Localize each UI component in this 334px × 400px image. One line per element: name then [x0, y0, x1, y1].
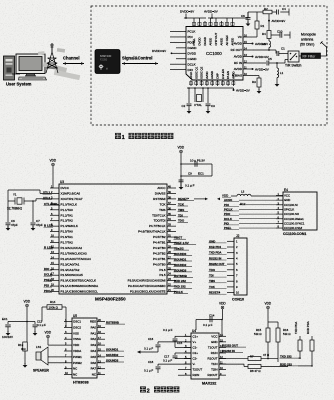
- resistor R8 47ohm: [219, 363, 244, 365]
- svg-text:AVDD=3V: AVDD=3V: [255, 42, 268, 46]
- U3 pin 33 P4.7/TBCLK: [167, 225, 176, 227]
- svg-text:AVDD=3V: AVDD=3V: [204, 10, 219, 14]
- svg-text:AVDD: AVDD: [234, 42, 243, 46]
- U5 pin 13 PA6: [97, 362, 105, 364]
- CC1000 top pin AVDD: [221, 21, 223, 27]
- svg-text:TXD PDA: TXD PDA: [209, 251, 221, 255]
- svg-text:P4.2/TB2: P4.2/TB2: [153, 251, 166, 255]
- caption figure 2: 图2 控制电路: [140, 386, 146, 392]
- svg-text:L1: L1: [280, 71, 284, 75]
- svg-text:PA1: PA1: [91, 331, 97, 335]
- svg-text:VDD: VDD: [178, 146, 185, 150]
- E4 pin 4 SPICLK: [276, 208, 283, 210]
- svg-text:CC1100.SO: CC1100.SO: [284, 212, 300, 216]
- svg-text:2: 2: [147, 389, 150, 395]
- svg-text:PA4: PA4: [91, 349, 97, 353]
- capacitor C10: [271, 34, 280, 36]
- wire reset with arrow: [194, 198, 206, 200]
- svg-text:P1.0/TACLK: P1.0/TACLK: [61, 202, 77, 206]
- antenna tower lattice: [46, 52, 58, 73]
- ground under L1: [275, 84, 280, 87]
- svg-text:LNA EN: LNA EN: [221, 69, 225, 79]
- svg-text:EC1: EC1: [2, 317, 8, 321]
- capacitor C8 0.1uF: [179, 179, 184, 181]
- E4 pin 2 GND: [276, 199, 283, 201]
- svg-text:TDO/TDI: TDO/TDI: [154, 219, 166, 223]
- caption figure 1: 图1 系统工作示意图: [115, 133, 121, 139]
- svg-text:RF OUT: RF OUT: [231, 48, 242, 52]
- svg-text:J2: J2: [236, 234, 240, 238]
- U3 pin 35 TDI/TCLK: [167, 214, 176, 216]
- svg-text:P1.2/TA1: P1.2/TA1: [61, 213, 74, 217]
- CC1000 right pin R BIAS: [243, 75, 252, 77]
- U3 pin 10 P1.6/TA1: [50, 236, 59, 238]
- monopole antenna symbol: [321, 42, 327, 47]
- svg-text:P1.4/SMCLK: P1.4/SMCLK: [61, 224, 78, 228]
- svg-text:DGND: DGND: [203, 37, 207, 45]
- svg-text:F2350: F2350: [100, 58, 108, 62]
- svg-text:antenna: antenna: [301, 38, 313, 42]
- resistor R2 horizontal top: [263, 10, 272, 14]
- crystal X2: [194, 88, 196, 102]
- U3 pin 34 TDO/TDI: [167, 220, 176, 222]
- resistor R16 51k: [277, 322, 279, 328]
- U3 pin 29 P4.3/TB0: [167, 247, 176, 249]
- E4 pin 8 CC1100.CS1#: [276, 227, 283, 229]
- svg-text:PA7: PA7: [91, 367, 97, 371]
- U3 pin 31 P4.5/TB2: [167, 236, 176, 238]
- CC1000 left pin DCLK: [176, 63, 186, 65]
- svg-text:U3: U3: [60, 180, 64, 184]
- U3 pin 37 TCK: [167, 203, 176, 205]
- svg-text:R1OUT: R1OUT: [208, 357, 218, 361]
- svg-text:T1OUT: T1OUT: [208, 345, 218, 349]
- monitor stand: [26, 74, 36, 77]
- svg-text:47pF: 47pF: [36, 223, 43, 227]
- svg-text:DCLK: DCLK: [188, 62, 196, 66]
- svg-text:PWM2: PWM2: [73, 361, 82, 365]
- MCU U3 MSP430F2350 body: [59, 184, 167, 294]
- U4 pin 4 C2+: [184, 352, 191, 354]
- E4 pin 3 CC1100.SI: [276, 204, 283, 206]
- svg-text:MSP430F2350: MSP430F2350: [95, 297, 126, 302]
- CC1000 bottom pin LNA EN: [222, 80, 224, 86]
- svg-text:P4.5/TB2: P4.5/TB2: [153, 235, 166, 239]
- U5 pin 17 PA2: [97, 338, 105, 340]
- svg-text:DGND: DGND: [188, 46, 198, 50]
- svg-text:0 Ω: 0 Ω: [21, 347, 26, 351]
- svg-text:X1N/P2.6/CA6: X1N/P2.6/CA6: [61, 191, 81, 195]
- U5 pin 12 PA7: [97, 368, 105, 370]
- wire R15 bottom junction: [267, 342, 269, 359]
- svg-text:VCC: VCC: [284, 194, 290, 198]
- svg-text:GND: GND: [284, 198, 290, 202]
- svg-text:0.1 µ F: 0.1 µ F: [203, 323, 213, 327]
- svg-text:R7: R7: [250, 354, 254, 358]
- svg-text:PA0: PA0: [91, 325, 97, 329]
- svg-text:C4: C4: [282, 7, 286, 11]
- U5 pin 4 VSSA: [64, 338, 72, 340]
- svg-text:R4: R4: [262, 32, 266, 36]
- svg-text:TCK: TCK: [160, 202, 166, 206]
- svg-text:C2: C2: [182, 104, 186, 108]
- svg-text:CC1100.CON1: CC1100.CON1: [283, 232, 306, 236]
- computer tower: [4, 56, 15, 80]
- svg-text:C1: C1: [281, 47, 285, 51]
- J2 pin 5 RS232 OUT: [227, 263, 234, 265]
- wire XTL1 net: [8, 189, 40, 191]
- capacitor C5 series RF IN: [252, 62, 266, 64]
- svg-text:P1.5/TA0: P1.5/TA0: [61, 230, 74, 234]
- svg-text:C9: C9: [188, 172, 192, 176]
- svg-text:Y1: Y1: [13, 193, 17, 197]
- svg-text:CC1000: CC1000: [206, 51, 222, 56]
- svg-text:C2+: C2+: [193, 351, 199, 355]
- capacitor C2 left of crystal: [188, 88, 190, 103]
- svg-text:Monopole: Monopole: [301, 33, 316, 37]
- E4 pin 7 CC1100.SYNC1: [276, 222, 283, 224]
- svg-text:PWM1: PWM1: [73, 355, 82, 359]
- resistor R4 vertical: [267, 31, 271, 39]
- svg-text:TXD PDA: TXD PDA: [294, 322, 298, 334]
- wire filter to antenna: [321, 55, 327, 57]
- RF filter black box: [301, 53, 321, 59]
- svg-text:C6: C6: [241, 14, 245, 18]
- svg-text:AVDD: AVDD: [234, 67, 243, 71]
- U4 pin 10 T2IN: [219, 369, 226, 371]
- svg-text:32.768kHz: 32.768kHz: [7, 207, 22, 211]
- CC1000 top pin AVDD: [210, 21, 212, 27]
- U3 pin 21 P3.3/UCB0CLK/UCA0STE: [167, 291, 176, 293]
- wire R2IN stub: [178, 374, 184, 376]
- capacitor C4 top right: [272, 11, 276, 13]
- svg-text:C2-: C2-: [193, 357, 198, 361]
- U5 pin 10 NC: [64, 374, 72, 376]
- svg-text:P1.7/TA2: P1.7/TA2: [61, 241, 74, 245]
- svg-text:V-: V-: [193, 362, 196, 366]
- wire top bus to right network: [240, 17, 248, 19]
- svg-text:X'TAL: X'TAL: [194, 103, 202, 107]
- svg-text:SPEAKER: SPEAKER: [33, 369, 50, 373]
- J2 pin 9 TCK: [227, 286, 234, 288]
- svg-text:AVDD=3V: AVDD=3V: [236, 89, 251, 93]
- svg-text:XOUT/P2.7/CA7: XOUT/P2.7/CA7: [61, 197, 83, 201]
- CC1000 bottom pin PA EN: [227, 80, 229, 86]
- svg-text:T2OUT: T2OUT: [193, 368, 203, 372]
- ground under R3: [257, 91, 262, 94]
- svg-text:SPICLK: SPICLK: [284, 207, 294, 211]
- bottom bus wire: [187, 87, 234, 89]
- svg-text:PCLK: PCLK: [188, 30, 196, 34]
- svg-text:U4: U4: [192, 329, 196, 333]
- svg-text:RF Filter: RF Filter: [303, 54, 317, 58]
- svg-text:PSEL: PSEL: [192, 38, 196, 46]
- svg-text:E4: E4: [284, 188, 288, 192]
- svg-text:VDD: VDD: [219, 302, 226, 306]
- ground below C2: [187, 111, 192, 114]
- resistor R13 0ohm: [26, 322, 28, 343]
- svg-text:DVDD: DVDD: [198, 37, 202, 45]
- svg-text:0.1 µ F: 0.1 µ F: [144, 369, 153, 373]
- U3 pin 32 P4.6/TB0UTH/ACLK: [167, 231, 176, 233]
- svg-text:VDD: VDD: [45, 331, 52, 335]
- U4 pin 15 GND: [219, 341, 226, 343]
- CC1000 right pin RF OUT: [243, 49, 252, 51]
- svg-text:0.1 µ F: 0.1 µ F: [144, 347, 153, 351]
- svg-text:0.1 µ F: 0.1 µ F: [185, 184, 195, 188]
- wire VSS to ground: [60, 332, 64, 334]
- U4 pin 7 T2OUT: [184, 369, 191, 371]
- svg-text:R LED: R LED: [44, 245, 53, 249]
- J2 pin 8 TMS: [227, 280, 234, 282]
- svg-text:P3.2/UCB0SOMI/UCB0SCL: P3.2/UCB0SOMI/UCB0SCL: [61, 290, 99, 294]
- inductor L2 vertical: [268, 39, 270, 42]
- U3 pin 27 P4.1/TB1: [167, 258, 176, 260]
- svg-text:User System: User System: [6, 82, 32, 87]
- svg-text:GND: GND: [211, 340, 218, 344]
- svg-text:DVDD=3V: DVDD=3V: [152, 49, 167, 53]
- wire R16 bottom junction: [277, 342, 279, 362]
- svg-text:47pF: 47pF: [11, 223, 18, 227]
- antenna tower mast: [51, 43, 53, 52]
- wire XTL2 net: [33, 200, 36, 202]
- svg-text:DIO: DIO: [188, 68, 194, 72]
- svg-text:DVCC: DVCC: [61, 186, 70, 190]
- CC1000 bottom pin AGND: [211, 80, 213, 86]
- CC1000 right pin RF IN: [243, 62, 252, 64]
- ground below C7: [31, 228, 36, 231]
- J2 pin 1 GND: [227, 240, 234, 242]
- U3 pin 18 P3.0/UCB0STE/UCA0CLK: [50, 280, 59, 282]
- connector E4 CC1100.CON1 body: [283, 192, 317, 230]
- svg-text:TDI/TCLK: TDI/TCLK: [152, 213, 165, 217]
- U3 pin 28 P4.2/TB2: [167, 252, 176, 254]
- CC1000 bottom pin AVDD: [232, 80, 234, 86]
- svg-text:1: 1: [122, 135, 125, 141]
- svg-text:PA5: PA5: [91, 355, 97, 359]
- capacitor C6 to ground: [247, 12, 249, 18]
- svg-text:R8 47 Ω: R8 47 Ω: [250, 369, 261, 373]
- svg-text:VDDA: VDDA: [73, 349, 81, 353]
- svg-text:LS1: LS1: [36, 345, 42, 349]
- ground below C11: [33, 333, 38, 336]
- node AVDD=3V right 1: [268, 14, 270, 31]
- U3 pin 38 RST/NMI: [167, 198, 176, 200]
- wire computer to tower: [12, 73, 20, 75]
- svg-text:R12: R12: [240, 202, 246, 206]
- radio wave ribbon 1: [43, 62, 67, 73]
- transceiver module chip: [95, 50, 120, 74]
- CC1000 left pin DIO: [176, 69, 186, 71]
- svg-text:PA EN: PA EN: [226, 71, 230, 79]
- U4 pin 3 C1-: [184, 346, 191, 348]
- U3 pin 8 P1.4/SMCLK: [50, 225, 59, 227]
- U3 pin 24 P3.5: [167, 274, 176, 276]
- svg-text:CHP OUT: CHP OUT: [214, 32, 218, 45]
- U5 pin 11 NC: [97, 374, 105, 376]
- U4 pin 1 C1+: [184, 335, 191, 337]
- U5 pin 1 OSC1: [64, 321, 72, 323]
- capacitor EC1 electrolytic loop: [181, 163, 212, 165]
- CC1000 top pin PSEL: [193, 21, 195, 27]
- svg-text:P2.3/CA0/TA1: P2.3/CA0/TA1: [61, 262, 80, 266]
- top supply bus AVDD: [208, 17, 240, 19]
- driver U4 MAX232 body: [191, 333, 219, 379]
- svg-text:VSS: VSS: [73, 331, 79, 335]
- wire TXD232 to PDA: [298, 357, 300, 359]
- svg-text:R2OUT: R2OUT: [208, 373, 218, 377]
- wire T2OUT stub: [178, 369, 184, 371]
- U4 pin 16 VCC: [219, 335, 226, 337]
- CC1000 bottom pin XOSC Q2: [201, 80, 203, 86]
- svg-text:P4.6/TB0UTH/ACLK: P4.6/TB0UTH/ACLK: [138, 230, 165, 234]
- svg-text:C16: C16: [148, 337, 154, 341]
- U3 pin 2 X1N/P2.6/CA6: [50, 192, 59, 194]
- svg-text:AVDD=3V: AVDD=3V: [272, 19, 287, 23]
- svg-text:HT83038: HT83038: [73, 381, 89, 385]
- svg-text:PA2: PA2: [91, 337, 97, 341]
- svg-text:10 µ F6.3V: 10 µ F6.3V: [190, 159, 206, 163]
- svg-text:R2IN: R2IN: [193, 373, 200, 377]
- CC1000 top pin DGND: [204, 21, 206, 27]
- svg-text:P2.2/CAOUT/TA0/CA4: P2.2/CAOUT/TA0/CA4: [61, 257, 92, 261]
- bottom pin number boxes: [190, 82, 193, 85]
- U3 pin 40 AVCC: [167, 187, 176, 189]
- node AVDD=3V right 3: [252, 68, 254, 70]
- svg-text:AVDD=3V: AVDD=3V: [255, 68, 270, 72]
- resistor R7 47ohm: [219, 358, 248, 360]
- svg-text:P4.0/TB0: P4.0/TB0: [153, 262, 166, 266]
- CC1000 right pin AVDD: [243, 56, 252, 58]
- CC1000 bottom pin XOSC Q1: [195, 80, 197, 86]
- svg-text:AVDD: AVDD: [234, 55, 243, 59]
- CC1000 top pin DVDD: [199, 21, 201, 27]
- U3 pin 39 DVA/SS: [167, 192, 176, 194]
- CC1000 right pin VC: [243, 36, 252, 38]
- inductor L1 vertical: [276, 63, 278, 68]
- svg-text:AD REF: AD REF: [225, 35, 229, 46]
- svg-text:C10: C10: [277, 30, 283, 34]
- svg-text:AGND: AGND: [210, 71, 214, 79]
- svg-text:OSC1: OSC1: [73, 320, 81, 324]
- ground below C3: [206, 111, 211, 114]
- capacitor C11 0.1uF: [27, 321, 35, 323]
- ground below speaker circuit: [24, 358, 26, 364]
- svg-text:Channel: Channel: [63, 56, 80, 61]
- svg-text:P4.7/TBCLK: P4.7/TBCLK: [149, 224, 166, 228]
- svg-text:R3: R3: [252, 80, 256, 84]
- J2 pin 3 TXD PDA: [227, 252, 234, 254]
- U3 pin 22 P3.4/UCA0TXD/UCA0SIMO: [167, 285, 176, 287]
- CC1000 left pin CGND: [176, 58, 186, 60]
- signal blob near tower: [57, 48, 65, 53]
- svg-text:R1IN: R1IN: [211, 351, 218, 355]
- channel double arrow: [63, 63, 84, 65]
- svg-text:CC1100.SYNC1: CC1100.SYNC1: [284, 221, 305, 225]
- svg-text:100/16V: 100/16V: [2, 335, 13, 339]
- U5 pin 7 PWM1: [64, 356, 72, 358]
- E4 pin 1 VCC: [276, 195, 283, 197]
- svg-text:VDD: VDD: [73, 343, 79, 347]
- svg-text:P3.0/UCB0STE/UCA0CLK: P3.0/UCB0STE/UCA0CLK: [61, 279, 97, 283]
- U3 pin 17 P2.5/ROSC/CA5: [50, 274, 59, 276]
- ground below EC2: [6, 333, 11, 336]
- svg-text:R14: R14: [50, 300, 56, 304]
- resistor R3 bias: [252, 75, 259, 77]
- svg-text:OSC2: OSC2: [73, 325, 81, 329]
- U5 pin 8 PWM2: [64, 362, 72, 364]
- svg-text:(50 Ohm): (50 Ohm): [300, 43, 314, 47]
- resistor R15 51k: [267, 322, 269, 328]
- U5 pin 15 PA4: [97, 350, 105, 352]
- svg-text:VDD: VDD: [265, 302, 272, 306]
- svg-text:P2.4/CA1/TA2: P2.4/CA1/TA2: [61, 268, 80, 272]
- CC1000 top pin AVDD: [232, 21, 234, 27]
- svg-text:P4.1/TB1: P4.1/TB1: [153, 257, 166, 261]
- capacitor C16 0.1uF at V+: [158, 341, 191, 343]
- svg-text:T2IN: T2IN: [211, 368, 217, 372]
- svg-text:DVA/SS: DVA/SS: [155, 191, 166, 195]
- J2 pin 7 TDI: [227, 275, 234, 277]
- svg-text:XOSC Q2: XOSC Q2: [200, 66, 204, 79]
- U3 pin 5 P1.1/TA0: [50, 209, 59, 211]
- svg-text:RXD PDA: RXD PDA: [306, 321, 310, 334]
- U5 pin 9 NC: [64, 368, 72, 370]
- U4 pin 12 R1OUT: [219, 358, 226, 360]
- CC1000 bottom pin CHP: [217, 80, 219, 86]
- U5 pin 18 PA1: [97, 332, 105, 334]
- U5 pin 2 OSC2: [64, 326, 72, 328]
- svg-text:V+: V+: [193, 340, 197, 344]
- svg-text:CC1100.SI: CC1100.SI: [284, 203, 298, 207]
- U3 pin 26 P4.0/TB0: [167, 263, 176, 265]
- svg-text:EC1: EC1: [198, 172, 204, 176]
- svg-text:VDD: VDD: [222, 194, 228, 198]
- J2 pin 6 TDO: [227, 269, 234, 271]
- U3 pin 4 P1.0/TACLK: [50, 203, 59, 205]
- svg-text:CC1100.Wake1: CC1100.Wake1: [284, 217, 304, 221]
- U3 pin 23 P3.5/UCA0RXD/UCA0SOMI: [167, 280, 176, 282]
- svg-text:P2.0/ACLK/CA2: P2.0/ACLK/CA2: [61, 246, 83, 250]
- wire switch to filter: [299, 55, 301, 57]
- connector J2 CON10 body: [234, 238, 247, 295]
- svg-text:P1.1/TA0: P1.1/TA0: [61, 208, 74, 212]
- svg-text:AVDD: AVDD: [220, 38, 224, 46]
- svg-text:T1IN: T1IN: [211, 362, 217, 366]
- ground under C6: [246, 24, 251, 27]
- svg-text:CGND: CGND: [188, 57, 198, 61]
- svg-text:MAX232: MAX232: [202, 382, 216, 386]
- svg-text:TMS: TMS: [159, 208, 165, 212]
- svg-text:P1.6/TA1: P1.6/TA1: [61, 235, 74, 239]
- svg-text:PA3: PA3: [91, 343, 97, 347]
- svg-text:0.1 µ F: 0.1 µ F: [37, 323, 46, 327]
- svg-text:RESET*: RESET*: [178, 197, 190, 201]
- svg-text:P2.5/ROSC/CA5: P2.5/ROSC/CA5: [61, 273, 84, 277]
- U3 pin 9 P1.5/TA0: [50, 231, 59, 233]
- svg-text:C18: C18: [148, 360, 154, 364]
- svg-text:AVCC: AVCC: [157, 186, 166, 190]
- capacitor C17 0.1uF at C2: [175, 352, 191, 354]
- svg-text:XTL2: XTL2: [43, 196, 51, 200]
- U3 pin 1 DVCC: [50, 187, 59, 189]
- svg-text:P2.1/TAINCLK/CA3: P2.1/TAINCLK/CA3: [61, 251, 87, 255]
- U3 pin 25 P3.6: [167, 269, 176, 271]
- voice chip U5 HT83038 body: [72, 318, 97, 378]
- node AVDD=3V below chip: [233, 89, 235, 91]
- E4 pin 5 CC1100.SO: [276, 213, 283, 215]
- node DVDD=3V at CC1000 left: [171, 52, 173, 54]
